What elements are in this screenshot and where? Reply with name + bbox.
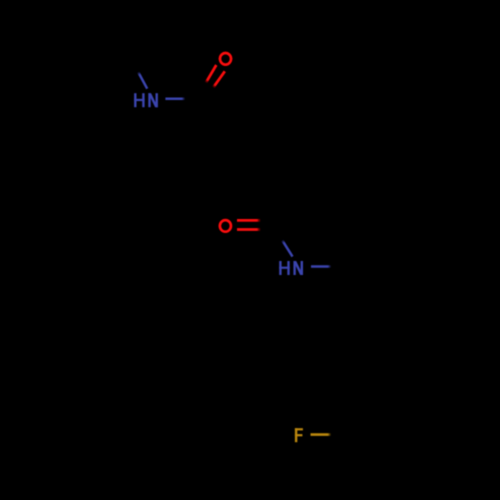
wire: double bond C6=O7, line 1 (red half at O7) (237, 219, 261, 222)
node O (atom label of carbonyl oxygen O3) (220, 53, 231, 65)
wire: bond F-C aryl (goldenrod half at F) (311, 433, 332, 436)
wire: bond N1-C2 carbonyl (blue half at N1) (165, 98, 185, 101)
wire: double bond C6=O7, line 2 (red half at O7) (237, 228, 261, 231)
node HN (atom label of nitrogen N5) (279, 261, 303, 275)
node HN (atom label of nitrogen N1) (134, 93, 158, 107)
node F (atom label of fluorine) (295, 428, 303, 442)
wire: bond CH3-N1 (blue half at amide nitrogen N1) (138, 72, 147, 89)
wire: bond N5-CH2 benzyl (blue half at N5) (311, 265, 331, 268)
wire: bond C6-N5 (blue half at amide nitrogen N5) (282, 240, 292, 257)
wire: double bond C2=O3, line 2 (red half at O3) (213, 71, 225, 87)
wire: double bond C2=O3, line 1 (red half at O3) (206, 65, 217, 83)
node O (atom label of carbonyl oxygen O7) (220, 220, 231, 232)
